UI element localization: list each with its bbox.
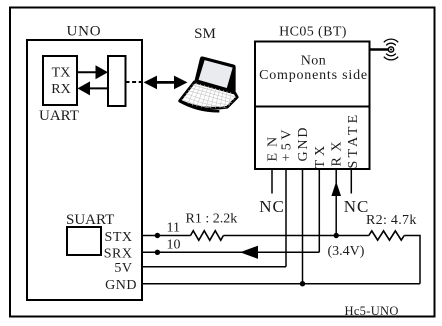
svg-text:+5V: +5V — [280, 126, 295, 161]
svg-text:STX: STX — [105, 230, 133, 245]
wire RX arrow (connector to UART) — [78, 81, 109, 95]
wire RX pin down with up arrow — [331, 169, 341, 236]
svg-text:GND: GND — [296, 126, 311, 162]
laptop SM icon — [178, 26, 246, 120]
wire +5V pin down — [285, 169, 287, 267]
block HC05 (BT) — [255, 25, 370, 169]
junction dot pin 11 — [155, 233, 160, 238]
connector (pin header) — [108, 56, 126, 106]
resistor R2 — [369, 231, 404, 240]
wire TX arrow (UART to connector) — [77, 65, 108, 79]
wireless link double arrow — [144, 76, 188, 90]
svg-text:UART: UART — [39, 108, 79, 124]
svg-text:(3.4V): (3.4V) — [328, 244, 365, 259]
wire node to R2 — [336, 235, 369, 237]
svg-text:5V: 5V — [114, 261, 132, 276]
svg-text:RX: RX — [330, 136, 345, 166]
UART block U-UART — [39, 56, 79, 124]
wire GND pin down — [302, 169, 304, 284]
wire GND — [142, 283, 420, 285]
svg-text:Components side: Components side — [259, 68, 368, 83]
junction dot pin 10 — [155, 250, 160, 255]
svg-text:NC: NC — [259, 197, 285, 216]
svg-text:TX: TX — [313, 142, 328, 169]
pin STATE stub — [350, 169, 352, 194]
svg-text:SM: SM — [194, 26, 216, 42]
junction dot GND — [300, 281, 305, 286]
dashed wire (connector to wireless link) — [126, 81, 143, 83]
svg-text:GND: GND — [105, 278, 137, 293]
wire TX pin down — [318, 169, 320, 252]
svg-text:11: 11 — [167, 221, 180, 236]
wire R2 to GND — [404, 236, 420, 284]
SUART block — [66, 212, 137, 293]
svg-text:SRX: SRX — [104, 246, 133, 261]
wire SRX (pin 10) from HC05 TX with left arrow — [142, 246, 319, 259]
wire 5V — [142, 266, 286, 268]
resistor R1 — [191, 231, 224, 241]
svg-text:RX: RX — [51, 82, 70, 97]
svg-text:SUART: SUART — [66, 212, 114, 228]
svg-text:STATE: STATE — [346, 112, 361, 169]
wire STX (pin 11) to node — [142, 235, 336, 237]
svg-text:10: 10 — [167, 237, 181, 252]
pin EN stub — [271, 169, 273, 194]
antenna — [370, 39, 399, 60]
block UNO — [27, 24, 142, 301]
svg-text:TX: TX — [52, 66, 71, 81]
svg-text:EN: EN — [266, 131, 281, 162]
svg-text:HC05 (BT): HC05 (BT) — [279, 25, 347, 40]
svg-text:UNO: UNO — [67, 24, 102, 40]
svg-text:R1 : 2.2k: R1 : 2.2k — [186, 211, 238, 226]
node (3.4V) — [334, 233, 339, 238]
svg-text:Hc5-UNO: Hc5-UNO — [345, 304, 399, 318]
svg-text:R2: 4.7k: R2: 4.7k — [366, 213, 417, 228]
svg-text:Non: Non — [301, 54, 327, 69]
